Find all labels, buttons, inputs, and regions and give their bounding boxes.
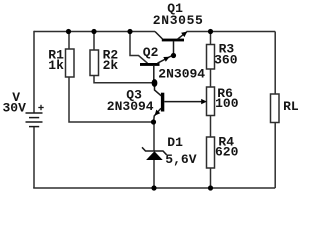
Q2 emitter arrow bbox=[163, 57, 169, 62]
Q3 emitter lead bbox=[154, 108, 161, 122]
svg-text:Q2: Q2 bbox=[143, 45, 159, 60]
battery plate short bottom bbox=[29, 126, 39, 128]
Q2 base bar bbox=[140, 63, 160, 66]
wire R1 bottom lead to D1 node bbox=[69, 77, 154, 122]
potentiometer R6 bbox=[207, 87, 215, 116]
node Q2 base / Q3 collector junction bbox=[152, 79, 158, 87]
node Q1 base junction bbox=[171, 53, 176, 58]
wire Q2 collector feed from top rail bbox=[130, 32, 148, 64]
node top rail R2 junction bbox=[91, 29, 96, 34]
svg-text:2N3094: 2N3094 bbox=[158, 66, 205, 81]
R6 wiper arrow bbox=[201, 99, 207, 104]
svg-text:100: 100 bbox=[215, 96, 239, 111]
wire left rail upper bbox=[33, 31, 35, 113]
svg-text:360: 360 bbox=[214, 52, 238, 67]
transistor Q3 2N3094 bbox=[154, 86, 207, 123]
battery plate long top bbox=[26, 112, 43, 114]
svg-text:2N3055: 2N3055 bbox=[153, 13, 204, 28]
svg-text:2N3094: 2N3094 bbox=[107, 99, 154, 114]
wire R1 top lead bbox=[68, 32, 70, 50]
node top rail Q2 collector junction bbox=[127, 29, 132, 34]
D1 anode triangle bbox=[146, 151, 163, 160]
transistor Q2 2N3094 bbox=[140, 56, 171, 80]
resistor RL bbox=[271, 94, 280, 123]
svg-text:D1: D1 bbox=[167, 135, 183, 150]
svg-text:30V: 30V bbox=[3, 100, 27, 115]
svg-text:620: 620 bbox=[215, 145, 239, 160]
Q2 base lead bbox=[153, 66, 155, 80]
Q1 collector lead bbox=[155, 32, 163, 40]
Q3 base bar bbox=[161, 93, 164, 112]
Q1 emitter arrow bbox=[181, 32, 187, 37]
wire bottom rail bbox=[33, 187, 275, 189]
resistor R2 bbox=[90, 50, 99, 76]
svg-text:1k: 1k bbox=[48, 58, 64, 73]
wire R3-R6 link bbox=[210, 69, 212, 87]
wire top rail left segment bbox=[34, 31, 155, 33]
wire R2 bottom lead to Q2 base node bbox=[94, 76, 155, 83]
Q2 emitter lead bbox=[158, 56, 172, 63]
wire right rail lower bbox=[274, 123, 276, 189]
svg-text:2k: 2k bbox=[103, 58, 119, 73]
Q1 base bar bbox=[162, 39, 184, 42]
resistor R4 bbox=[207, 137, 215, 168]
wire D1 top lead bbox=[153, 122, 155, 151]
Q3 collector lead bbox=[155, 86, 162, 96]
node bottom rail D1 junction bbox=[151, 185, 156, 190]
Q1 base lead bbox=[173, 41, 175, 56]
wire R3 top lead bbox=[210, 32, 212, 45]
Q3 base lead to R6 wiper bbox=[164, 101, 205, 103]
battery V 30V bbox=[26, 113, 43, 127]
node Q3 emitter / D1 junction bbox=[151, 119, 156, 124]
wire R4 bottom lead bbox=[210, 168, 212, 188]
wire right rail upper bbox=[274, 32, 276, 95]
svg-text:5,6V: 5,6V bbox=[165, 152, 196, 167]
transistor Q1 2N3055 bbox=[155, 32, 187, 56]
wire left rail lower bbox=[33, 127, 35, 189]
Q1 emitter lead bbox=[178, 32, 187, 39]
resistor R3 bbox=[207, 45, 215, 70]
zener diode D1 5,6V bbox=[142, 147, 167, 160]
D1 cathode bar with zener wings bbox=[142, 147, 167, 154]
node top rail R3 junction bbox=[208, 29, 213, 34]
node top rail R1 junction bbox=[66, 29, 71, 34]
battery plus sign bbox=[38, 105, 43, 110]
svg-text:RL: RL bbox=[283, 99, 299, 114]
wire D1 bottom lead bbox=[153, 160, 155, 188]
Q3 emitter arrow bbox=[155, 110, 161, 116]
wire R2 top lead bbox=[93, 32, 95, 51]
resistor R1 bbox=[66, 49, 75, 77]
wire R6-R4 link bbox=[210, 116, 212, 138]
node bottom rail R4 junction bbox=[208, 185, 213, 190]
wire top rail right segment bbox=[187, 31, 276, 33]
battery plate short bbox=[29, 117, 39, 119]
battery plate long bbox=[26, 121, 43, 123]
